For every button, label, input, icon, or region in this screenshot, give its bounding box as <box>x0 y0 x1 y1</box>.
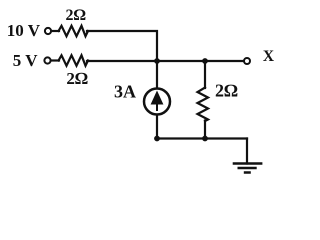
svg-text:2Ω: 2Ω <box>215 81 238 101</box>
svg-text:10 V: 10 V <box>7 21 41 40</box>
svg-text:2Ω: 2Ω <box>65 7 85 24</box>
svg-text:X: X <box>263 48 275 65</box>
svg-text:3A: 3A <box>114 82 136 102</box>
svg-text:2Ω: 2Ω <box>66 69 88 88</box>
svg-text:5 V: 5 V <box>13 51 38 70</box>
